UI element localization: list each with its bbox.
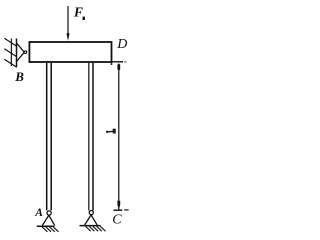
- svg-text:A: A: [34, 207, 43, 219]
- svg-text:C: C: [112, 213, 122, 228]
- svg-text:F: F: [73, 5, 83, 20]
- svg-text:D: D: [116, 37, 127, 52]
- svg-text:B: B: [14, 69, 24, 84]
